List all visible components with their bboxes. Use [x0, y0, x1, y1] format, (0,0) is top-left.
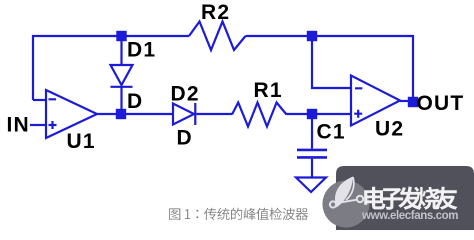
wire top rail right	[246, 36, 414, 98]
wire U2 output	[400, 100, 409, 102]
wire top rail	[33, 36, 189, 100]
capacitor C1	[297, 119, 327, 178]
wire U1 minus feedback	[33, 99, 46, 101]
watermark logo traces	[330, 196, 363, 208]
svg-text:D: D	[127, 90, 143, 113]
resistor R2	[189, 22, 246, 51]
wire C1 node to U2 plus	[317, 113, 352, 115]
resistor R1	[232, 103, 287, 127]
node junction D1 top	[116, 31, 126, 41]
watermark text elecfans chinese	[364, 187, 457, 210]
caption figure 1	[169, 208, 308, 220]
node junction R2 right / U2 minus	[307, 31, 317, 41]
svg-text:U1: U1	[67, 130, 96, 153]
op-amp U2	[351, 76, 400, 126]
watermark logo leaf	[335, 177, 353, 208]
svg-text:www.elecfans.com: www.elecfans.com	[361, 210, 458, 222]
watermark badge	[336, 166, 474, 230]
svg-text:D1: D1	[127, 39, 156, 62]
svg-text:D2: D2	[171, 83, 200, 106]
svg-text:IN: IN	[7, 114, 30, 137]
ground	[296, 178, 326, 193]
svg-text:R2: R2	[201, 1, 230, 24]
wire D node to D2	[126, 113, 174, 115]
svg-text:OUT: OUT	[417, 92, 465, 115]
wire U2 minus branch	[312, 41, 351, 89]
svg-text:U2: U2	[375, 118, 404, 141]
svg-text:R1: R1	[254, 79, 283, 102]
node D	[116, 109, 126, 119]
wire D2 to R1	[197, 113, 233, 115]
wire IN	[30, 124, 46, 126]
node OUT	[408, 97, 418, 107]
node C1 top	[307, 109, 317, 119]
svg-text:C1: C1	[317, 121, 346, 144]
diode D1	[111, 41, 133, 111]
diode D2	[173, 103, 195, 125]
wire R1 to C1 node	[287, 113, 308, 115]
watermark logo disc	[323, 181, 370, 228]
op-amp U1	[46, 90, 97, 138]
svg-text:D: D	[177, 127, 193, 150]
wire U1 output	[97, 113, 117, 115]
